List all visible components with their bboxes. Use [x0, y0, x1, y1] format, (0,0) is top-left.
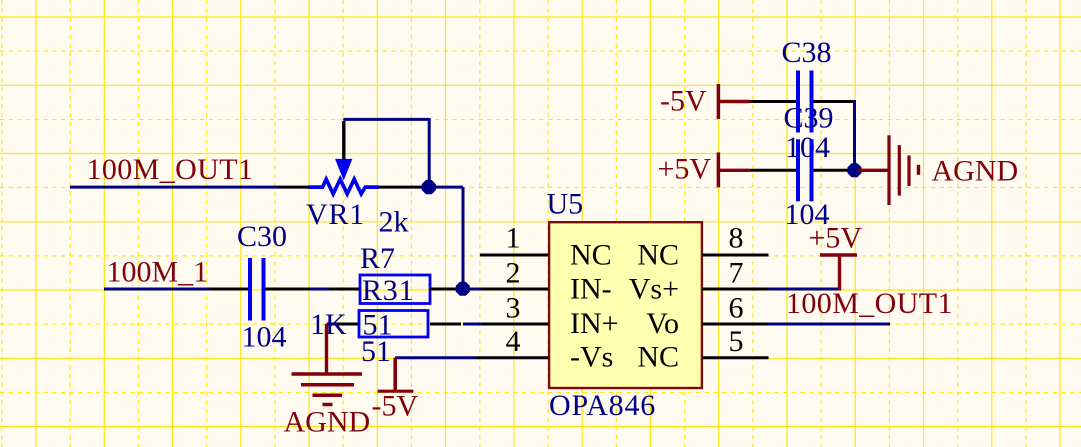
- wire junction to pin 2: [463, 288, 481, 291]
- designator U5: [547, 188, 584, 221]
- pin name NC (5): [637, 341, 679, 374]
- pin 1: [480, 221, 549, 255]
- svg-text:IN+: IN+: [570, 307, 619, 340]
- net label 100M_OUT1 (right): [786, 287, 953, 320]
- pin 4: [476, 325, 549, 358]
- wire pin 7 to +5V: [769, 288, 839, 291]
- pin name NC (1): [570, 239, 612, 272]
- pin 7: [702, 256, 769, 289]
- pin name Vs+ (7): [629, 273, 679, 306]
- power port +5V (left of C39): [718, 152, 749, 187]
- pin 3: [482, 291, 549, 324]
- svg-text:NC: NC: [637, 239, 679, 272]
- wire wiper feedback loop: [343, 118, 429, 187]
- pin name IN+ (3): [570, 307, 619, 340]
- wire net 100M_1: [104, 288, 209, 291]
- svg-text:OPA846: OPA846: [549, 389, 656, 422]
- svg-text:104: 104: [785, 131, 830, 164]
- pin 8: [702, 221, 769, 255]
- svg-text:R7: R7: [360, 242, 395, 275]
- svg-text:NC: NC: [570, 239, 612, 272]
- svg-text:104: 104: [785, 198, 830, 231]
- resistor R31: [330, 311, 482, 338]
- pin 6: [702, 291, 769, 324]
- label +5V (left of C39): [658, 153, 712, 186]
- svg-text:5: 5: [729, 325, 744, 358]
- svg-text:2k: 2k: [379, 206, 409, 239]
- resistor R7: [330, 275, 463, 304]
- capacitor C38: [750, 71, 853, 133]
- pin name NC (8): [637, 239, 679, 272]
- power port -5V (bottom): [378, 358, 414, 392]
- potentiometer VR1: [278, 121, 421, 194]
- net label 100M_1: [107, 256, 209, 289]
- svg-text:Vo: Vo: [646, 307, 679, 340]
- junction at AGND node: [848, 163, 862, 177]
- svg-text:C38: C38: [782, 36, 832, 69]
- svg-text:VR1: VR1: [306, 198, 365, 231]
- op-amp U5 body: [549, 222, 702, 388]
- svg-text:AGND: AGND: [284, 406, 371, 439]
- svg-text:R31: R31: [362, 274, 414, 307]
- svg-text:100M_OUT1: 100M_OUT1: [87, 153, 254, 186]
- svg-text:104: 104: [242, 321, 287, 354]
- label +5V (right): [809, 222, 863, 255]
- comment OPA846: [549, 389, 656, 422]
- wire C38 to AGND node: [853, 100, 855, 170]
- value 104 (C30): [242, 321, 287, 354]
- wire pin 6 net 100M_OUT1: [769, 323, 891, 326]
- designator C30: [237, 220, 287, 253]
- value 104 (C38): [785, 131, 830, 164]
- svg-text:IN-: IN-: [570, 273, 612, 306]
- designator C38: [782, 36, 832, 69]
- svg-text:7: 7: [729, 256, 744, 289]
- svg-text:1K: 1K: [310, 308, 347, 341]
- pin name -Vs (4): [570, 341, 613, 374]
- value 1K: [310, 308, 347, 341]
- junction at pot output: [422, 180, 436, 194]
- wire C39 to AGND: [852, 169, 860, 172]
- label -5V (top): [660, 85, 707, 118]
- net label 100M_OUT1 (left): [87, 153, 254, 186]
- svg-text:-Vs: -Vs: [570, 341, 613, 374]
- svg-text:4: 4: [506, 325, 521, 358]
- svg-text:C30: C30: [237, 220, 287, 253]
- junction at IN- node: [456, 282, 470, 296]
- svg-text:1: 1: [506, 221, 521, 254]
- capacitor C30: [209, 258, 310, 321]
- designator R7: [360, 242, 395, 275]
- value 51 (below): [361, 335, 391, 368]
- svg-text:AGND: AGND: [932, 155, 1019, 188]
- pin 5: [702, 325, 769, 358]
- svg-text:U5: U5: [547, 188, 584, 221]
- wire pot output to junction: [421, 186, 464, 189]
- ground AGND (right, rotated): [858, 135, 919, 205]
- svg-text:C39: C39: [784, 102, 834, 135]
- svg-text:-5V: -5V: [660, 85, 707, 118]
- wire AGND to R31: [327, 323, 332, 326]
- power port -5V (top): [718, 84, 749, 119]
- label AGND (left): [284, 406, 371, 439]
- value 104 (C39): [785, 198, 830, 231]
- wire junction down to IN- node: [462, 187, 465, 289]
- svg-text:-5V: -5V: [372, 389, 419, 422]
- designator R31 (overlapping): [362, 274, 414, 307]
- label -5V (bottom): [372, 389, 419, 422]
- svg-text:51: 51: [361, 335, 391, 368]
- value 2k: [379, 206, 409, 239]
- wire net 100M_OUT1 left segment: [70, 186, 278, 189]
- designator C39: [784, 102, 834, 135]
- svg-text:+5V: +5V: [658, 153, 712, 186]
- ground AGND (left): [292, 324, 363, 405]
- wire C30 to R7: [310, 288, 330, 291]
- wire -5V to pin 4: [395, 356, 476, 359]
- svg-text:NC: NC: [637, 341, 679, 374]
- power port +5V (right): [820, 255, 857, 291]
- svg-text:Vs+: Vs+: [629, 273, 679, 306]
- svg-text:2: 2: [506, 256, 521, 289]
- capacitor C39: [750, 139, 852, 201]
- pin name IN- (2): [570, 273, 612, 306]
- svg-text:6: 6: [729, 291, 744, 324]
- svg-text:3: 3: [506, 291, 521, 324]
- value 51 (inside R31): [363, 309, 393, 342]
- pin name Vo (6): [646, 307, 679, 340]
- svg-text:8: 8: [729, 221, 744, 254]
- pin 2: [481, 256, 549, 289]
- designator VR1: [306, 198, 365, 231]
- svg-text:100M_1: 100M_1: [107, 256, 209, 289]
- label AGND (right): [932, 155, 1019, 188]
- svg-text:100M_OUT1: 100M_OUT1: [786, 287, 953, 320]
